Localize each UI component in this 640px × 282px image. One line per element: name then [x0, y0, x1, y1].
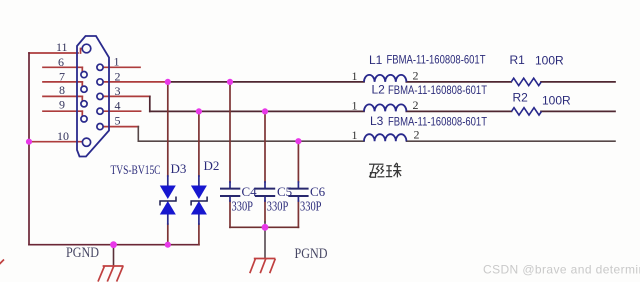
svg-text:9: 9 — [59, 97, 65, 111]
svg-text:330P: 330P — [300, 200, 322, 215]
svg-text:5: 5 — [115, 113, 121, 127]
svg-text:4: 4 — [115, 99, 121, 113]
svg-text:11: 11 — [56, 40, 68, 54]
svg-text:FBMA-11-160808-601T: FBMA-11-160808-601T — [388, 83, 488, 97]
svg-text:TVS-BV15C: TVS-BV15C — [111, 162, 161, 177]
svg-text:L3: L3 — [370, 114, 384, 128]
svg-text:PGND: PGND — [66, 245, 99, 261]
svg-text:L1: L1 — [369, 53, 383, 67]
svg-text:C4: C4 — [242, 184, 258, 199]
svg-text:CSDN @brave and determined: CSDN @brave and determined — [483, 263, 640, 277]
svg-text:2: 2 — [115, 69, 121, 83]
svg-text:2: 2 — [413, 98, 419, 112]
svg-text:L2: L2 — [372, 83, 386, 97]
svg-text:100R: 100R — [542, 93, 571, 107]
svg-text:7: 7 — [59, 70, 65, 84]
svg-text:8: 8 — [59, 83, 65, 97]
svg-text:PGND: PGND — [295, 246, 328, 262]
svg-text:D3: D3 — [171, 161, 187, 176]
svg-text:FBMA-11-160808-601T: FBMA-11-160808-601T — [387, 52, 487, 66]
svg-text:R2: R2 — [513, 91, 529, 105]
svg-text:FBMA-11-160808-601T: FBMA-11-160808-601T — [388, 114, 488, 128]
svg-text:1: 1 — [352, 128, 358, 142]
svg-text:330P: 330P — [267, 200, 289, 215]
svg-text:1: 1 — [352, 98, 358, 112]
svg-text:1: 1 — [114, 55, 120, 69]
svg-text:2: 2 — [413, 68, 419, 82]
svg-text:1: 1 — [352, 69, 358, 83]
svg-text:100R: 100R — [535, 53, 564, 67]
svg-text:D2: D2 — [204, 158, 220, 173]
svg-text:330P: 330P — [232, 200, 254, 215]
svg-text:2: 2 — [414, 128, 420, 142]
svg-text:C5: C5 — [277, 184, 292, 199]
svg-text:R1: R1 — [510, 53, 526, 67]
svg-text:10: 10 — [57, 129, 69, 143]
svg-text:6: 6 — [58, 55, 64, 69]
svg-text:3: 3 — [115, 84, 121, 98]
svg-text:C6: C6 — [310, 184, 326, 199]
